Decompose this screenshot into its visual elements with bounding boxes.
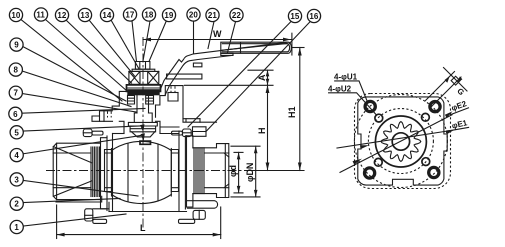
callout 3 leader xyxy=(23,180,138,196)
left cap flange xyxy=(101,138,108,209)
pad bolt box side view xyxy=(193,119,207,137)
callout 12 leader xyxy=(66,20,132,83)
handle grip sleeve xyxy=(221,42,292,53)
stem washer xyxy=(132,69,155,71)
svg-text:11: 11 xyxy=(36,11,45,20)
callout 2 bubble xyxy=(10,197,23,210)
svg-text:12: 12 xyxy=(57,11,66,20)
svg-text:13: 13 xyxy=(80,11,89,20)
callout 6 leader xyxy=(22,109,145,114)
callout 5 bubble xyxy=(10,126,23,139)
svg-text:H1: H1 xyxy=(287,106,297,118)
right mounting bracket xyxy=(156,86,201,119)
left cap female thread hatch xyxy=(91,147,100,197)
callout 15 leader xyxy=(188,22,291,128)
callout 13 bubble xyxy=(78,8,91,21)
callout 11 leader xyxy=(46,20,128,92)
svg-text:7: 7 xyxy=(14,89,19,98)
callout 7 bubble xyxy=(9,86,22,99)
svg-text:8: 8 xyxy=(14,66,19,75)
svg-text:W: W xyxy=(213,29,222,39)
left cap cone lines xyxy=(54,147,92,196)
bottom right bolt and nut xyxy=(187,201,217,209)
svg-text:20: 20 xyxy=(189,11,198,20)
svg-text:4-φU1: 4-φU1 xyxy=(334,73,358,82)
callout 18 leader xyxy=(143,21,150,61)
gland flange plate (thick) xyxy=(127,85,161,92)
svg-text:17: 17 xyxy=(125,11,134,20)
square G dimension xyxy=(425,72,455,102)
callout 15 bubble xyxy=(288,9,301,22)
stem top nut xyxy=(135,62,150,70)
svg-text:2: 2 xyxy=(14,200,19,209)
callout 2 leader xyxy=(23,199,120,203)
callout 9 bubble xyxy=(10,38,23,51)
callout 21 bubble xyxy=(206,8,219,21)
svg-text:10: 10 xyxy=(11,11,20,20)
callout 21 leader xyxy=(208,22,214,49)
bottom left bolt and nut xyxy=(108,202,110,211)
callout 20 leader xyxy=(193,21,195,53)
callout 19 leader xyxy=(149,21,167,62)
svg-text:16: 16 xyxy=(309,12,318,21)
callout 8 leader xyxy=(22,71,131,107)
body left flange joint xyxy=(106,136,108,211)
gland studs xyxy=(128,95,135,104)
center body outline xyxy=(113,133,125,135)
large bolt hole U1 bottom-right xyxy=(429,167,439,177)
callout 16 bubble xyxy=(307,9,320,22)
handle stop plate xyxy=(167,74,202,79)
W dimension xyxy=(143,39,291,41)
callout 14 leader xyxy=(111,20,139,68)
callout 19 bubble xyxy=(162,8,175,21)
H dimension xyxy=(185,84,274,86)
handle lever bar xyxy=(160,42,287,90)
top right body bolt xyxy=(183,129,192,137)
svg-text:φd: φd xyxy=(228,165,238,177)
left seat ring xyxy=(105,150,112,192)
left cap foot xyxy=(56,196,102,202)
A dimension xyxy=(248,69,273,71)
phiE1 dimension line xyxy=(337,131,450,148)
callout 1 bubble xyxy=(10,220,23,233)
svg-text:22: 22 xyxy=(232,11,241,20)
phi-d dimension xyxy=(234,151,243,153)
left cap bore walls xyxy=(53,153,91,188)
callout 1 leader xyxy=(23,214,126,226)
large bolt hole U1 top-left xyxy=(365,101,375,111)
left bracket xyxy=(100,91,127,121)
svg-text:A: A xyxy=(257,74,267,81)
leader 4 arrowhead on ball top xyxy=(141,133,145,141)
bracket to body steps right xyxy=(156,121,180,133)
callout 14 bubble xyxy=(100,8,113,21)
phiE2 dimension line xyxy=(340,115,452,173)
right cap male thread hatch xyxy=(194,148,204,194)
svg-text:4: 4 xyxy=(14,151,19,160)
callout 5 leader xyxy=(23,126,140,131)
svg-text:14: 14 xyxy=(102,11,111,20)
svg-text:4-φU2: 4-φU2 xyxy=(328,85,352,94)
grip collar xyxy=(240,43,242,53)
stem lower boss xyxy=(134,113,152,122)
callout 4 bubble xyxy=(10,149,23,162)
svg-text:6: 6 xyxy=(13,110,18,119)
small bolt hole U2 top-right xyxy=(422,113,430,121)
callout 10 bubble xyxy=(9,8,22,21)
svg-text:L: L xyxy=(140,223,146,233)
phi-DN dimension xyxy=(231,145,260,147)
left pad hidden bolt xyxy=(108,111,112,117)
pad hidden outline (dashed) xyxy=(355,94,451,189)
callout 8 bubble xyxy=(9,63,22,76)
leader 5 arrowhead on stem xyxy=(140,124,144,132)
svg-text:1: 1 xyxy=(14,223,19,232)
horizontal centerline of bore xyxy=(46,170,252,172)
callout 20 bubble xyxy=(187,8,200,21)
right pad hidden bolt xyxy=(171,86,175,92)
callout 6 bubble xyxy=(9,107,22,120)
svg-text:18: 18 xyxy=(144,11,153,20)
small bolt hole U2 bottom-right xyxy=(422,158,430,166)
svg-text:9: 9 xyxy=(14,41,19,50)
callout 9 leader xyxy=(23,46,127,101)
left end cap body xyxy=(53,143,100,199)
callout 17 leader xyxy=(132,21,137,62)
small bolt hole U2 top-left xyxy=(375,114,383,122)
bolt circle dashed E2 xyxy=(368,109,433,174)
top left body bolt xyxy=(83,129,92,137)
H1 dimension xyxy=(293,47,305,49)
vertical centerline of stem xyxy=(142,37,144,231)
right seat ring xyxy=(171,150,178,192)
handle clamp on stem (solid black) xyxy=(127,89,159,95)
bar edge inside grip xyxy=(222,44,287,51)
large bolt hole U1 bottom-left xyxy=(365,168,375,178)
right end cap neck and hex xyxy=(193,144,229,198)
stem shoulder plate xyxy=(128,122,157,126)
callout 4 leader xyxy=(23,136,140,154)
callout 16 leader xyxy=(206,22,310,132)
packing gland boxes with X xyxy=(129,71,159,84)
small bolt hole U2 bottom-left xyxy=(374,158,382,166)
pad solid outline xyxy=(358,97,447,185)
callout 11 bubble xyxy=(34,8,47,21)
callout 12 bubble xyxy=(55,8,68,21)
L dimension xyxy=(56,205,58,239)
callout 3 bubble xyxy=(10,173,23,186)
ball bore (closed position) xyxy=(127,144,129,202)
svg-text:5: 5 xyxy=(14,128,19,137)
stem collar xyxy=(130,126,156,132)
stem-ball slot xyxy=(140,141,151,144)
svg-text:19: 19 xyxy=(164,11,173,20)
svg-text:21: 21 xyxy=(208,11,217,20)
stem spline xyxy=(381,122,421,162)
ball xyxy=(112,141,172,203)
handle stopper tab xyxy=(193,63,202,67)
callout 13 leader xyxy=(89,20,135,76)
callout 22 leader xyxy=(228,22,236,53)
stem neck taper xyxy=(132,132,155,137)
callout 17 bubble xyxy=(123,8,136,21)
stem boss outer circle xyxy=(375,116,426,167)
svg-text:3: 3 xyxy=(14,175,19,184)
stem middle column xyxy=(137,95,149,113)
right end cap flange xyxy=(187,136,193,207)
bolt circle dashed E1 xyxy=(354,95,447,188)
callout 7 leader xyxy=(22,94,136,113)
stem bore xyxy=(392,133,409,150)
svg-text:H: H xyxy=(257,128,267,135)
callout 10 leader xyxy=(21,20,122,102)
left cap face inner line xyxy=(56,143,58,199)
svg-text:φDN: φDN xyxy=(245,163,255,182)
svg-text:15: 15 xyxy=(290,12,299,21)
right cap bore walls xyxy=(205,153,229,188)
callout 18 bubble xyxy=(142,8,155,21)
callout 22 bubble xyxy=(230,8,243,21)
large bolt hole U1 top-right xyxy=(430,102,440,112)
